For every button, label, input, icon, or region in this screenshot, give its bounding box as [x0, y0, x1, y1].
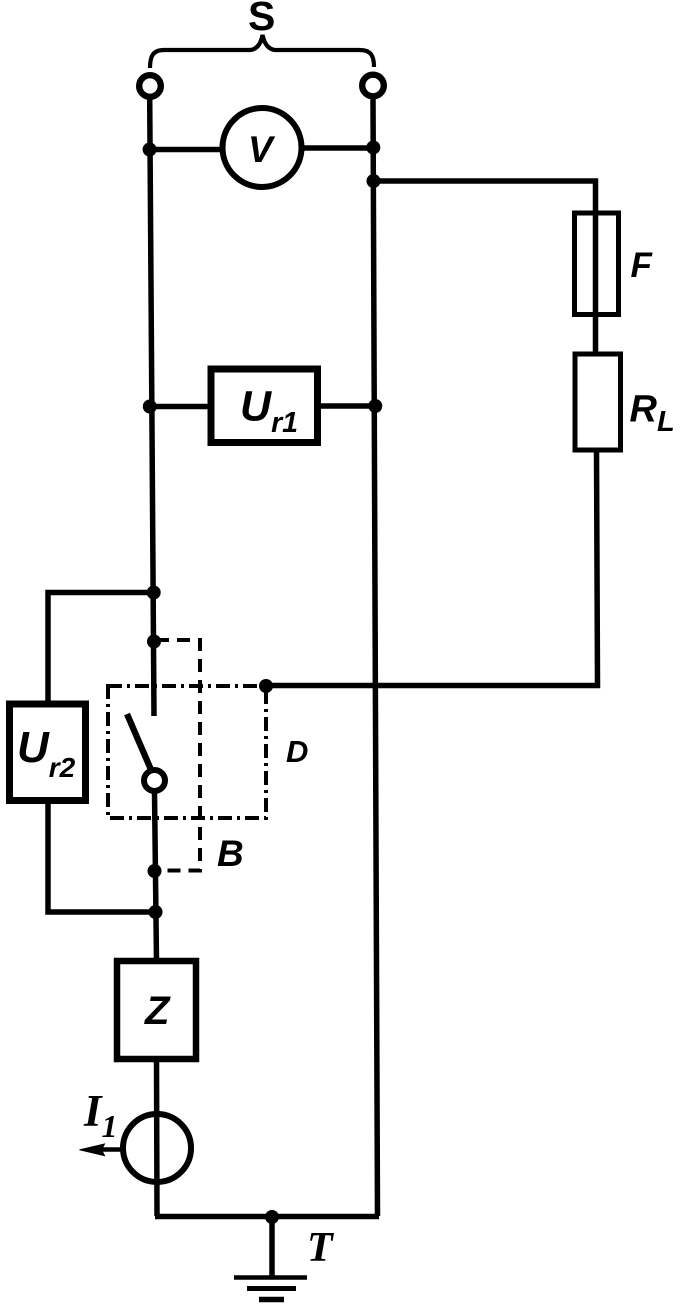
ground bar 2	[247, 1286, 296, 1291]
wire Ur2 top	[48, 593, 154, 705]
wire Ur1 left	[149, 404, 210, 410]
node B box bottom junction	[148, 864, 162, 878]
ground bar 1	[234, 1275, 307, 1280]
terminal left	[139, 75, 161, 97]
node Ur2 bottom junction	[149, 905, 163, 919]
node left voltmeter junction	[143, 143, 157, 157]
wire switch to Z	[155, 793, 157, 962]
box Ur2	[10, 704, 86, 801]
svg-text:F: F	[631, 246, 654, 285]
svg-text:S: S	[248, 0, 275, 39]
wire voltmeter left	[149, 147, 223, 153]
node D box corner junction	[259, 679, 273, 693]
node Ur1 left junction	[143, 400, 157, 414]
box Ur1	[211, 369, 318, 443]
voltmeter V1 circle	[223, 108, 302, 187]
wire voltmeter right	[302, 145, 375, 151]
arrow of current source	[102, 1147, 122, 1152]
node fuse branch junction	[367, 174, 381, 188]
box B dashed	[154, 640, 200, 871]
svg-text:D: D	[286, 734, 308, 769]
switch blade	[127, 714, 152, 772]
brace under S	[150, 35, 374, 68]
svg-text:T: T	[307, 1225, 335, 1271]
node T junction	[265, 1210, 279, 1224]
wire to fuse branch	[374, 181, 596, 356]
switch pivot contact circle	[144, 770, 165, 791]
wire Z to current source	[154, 1059, 160, 1216]
wire bottom	[155, 1214, 379, 1220]
box D dash-dot	[108, 686, 266, 818]
svg-text:B: B	[217, 833, 244, 874]
node Ur2 top junction	[147, 586, 161, 600]
current source I1 circle	[123, 1114, 191, 1182]
box Z	[117, 961, 196, 1059]
wire RL bottom to node D corner	[266, 450, 598, 686]
wire Ur1 right	[318, 403, 376, 409]
resistor RL	[575, 354, 621, 450]
arrowhead	[80, 1144, 105, 1156]
svg-text:V: V	[248, 129, 276, 170]
node Ur1 right junction	[368, 399, 382, 413]
terminal right	[362, 75, 384, 97]
wire Ur2 bottom	[48, 801, 156, 912]
wire right rail (terminal to bottom corner)	[373, 97, 378, 1216]
fuse F	[575, 213, 619, 315]
node B box top junction	[147, 635, 161, 649]
node right voltmeter junction	[366, 141, 380, 155]
wire left rail (terminal to switch fixed contact)	[150, 98, 154, 716]
svg-text:Z: Z	[144, 989, 171, 1033]
ground bar 3	[259, 1297, 284, 1303]
ground stem	[269, 1217, 275, 1277]
